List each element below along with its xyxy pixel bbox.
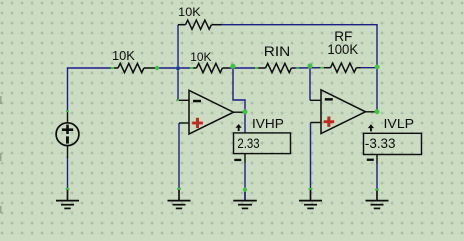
resistor RF 100K [323, 63, 361, 72]
meter IVHP [234, 124, 291, 163]
node dot: rail junction op-amp2 minus [307, 63, 312, 68]
wire: source bottom to ground [67, 157, 69, 188]
svg-text:RIN: RIN [264, 43, 291, 59]
pin: op-amp1 output stub [234, 111, 244, 113]
ground (op-amp2 plus) [299, 189, 322, 209]
svg-text:IVHP: IVHP [252, 116, 284, 131]
pin tick: op-amp1 plus ground [177, 188, 181, 190]
pin tick: op-amp2 plus ground [309, 188, 313, 190]
node dot: RF right / top wire junction [375, 65, 380, 70]
pin tick: R2 left pin [111, 67, 114, 69]
node dot: op-amp2 output [375, 109, 380, 114]
pin: op-amp2 plus stub [311, 122, 322, 124]
wire: from node (310,68) down to op-amp2 minus [309, 68, 311, 101]
pin tick: RF left pin [320, 67, 323, 69]
ground (source) [56, 189, 79, 209]
pin tick: source ground [66, 188, 70, 190]
wire: op-amp2 plus input down to ground [310, 123, 312, 189]
wire: rail between RIN and RF [295, 67, 323, 69]
voltage source V1 [56, 112, 79, 159]
wire: feedback jog from node (233,68) down to op-amp1 output node [233, 68, 245, 112]
junction dot (navy) at rail x=178 [176, 66, 180, 70]
wire: meter IVLP bottom to ground [376, 163, 378, 190]
resistor R2 10K (input) [112, 63, 156, 72]
resistor R1 10K (top feedback) [178, 20, 222, 29]
wire: rail between R3 and RIN [230, 67, 258, 69]
pin: op-amp2 minus stub [310, 99, 321, 101]
left sheet-border dash marks [0, 96, 2, 104]
wire: top feedback horizontal and right vertical down to op-amp2 output [222, 25, 378, 112]
pin tick: meter IVLP ground [375, 189, 379, 191]
wire: op-amp1 output node down to meter IVHP [244, 112, 246, 133]
ground (meter IVHP) [233, 190, 257, 209]
svg-text:2.33: 2.33 [237, 136, 259, 152]
node dot: R2 right pin [155, 66, 159, 70]
pin tick: RIN left pin [255, 67, 258, 69]
ground (op-amp1 plus) [168, 189, 191, 209]
meter IVLP [364, 124, 422, 163]
svg-text:10K: 10K [178, 5, 200, 19]
wire: RF right lead to right vertical [361, 67, 378, 69]
pin tick: R3 left pin [190, 67, 193, 69]
resistor R3 10K (to op-amp1 minus) [192, 63, 230, 72]
pin: op-amp1 plus stub [179, 122, 189, 124]
svg-text:-3.33: -3.33 [365, 136, 396, 152]
pin: op-amp2 output stub [366, 111, 376, 113]
pin tick: source top [66, 111, 69, 113]
wire: input corner from source up to rail [68, 68, 112, 112]
wire: meter IVHP bottom to ground [244, 162, 246, 190]
node dot: rail junction at feedback jog [230, 64, 235, 69]
op-amp U1 [189, 90, 234, 134]
wire: op-amp1 plus input down to ground [178, 123, 180, 188]
wire: rail between R2 and R3 [155, 67, 192, 69]
svg-text:IVLP: IVLP [384, 116, 415, 131]
node dot: op-amp1 output [243, 109, 248, 114]
resistor RIN [258, 63, 296, 72]
pin tick: op-amp1 minus pin [176, 100, 179, 102]
svg-text:10K: 10K [190, 50, 211, 64]
ground (meter IVLP) [366, 190, 389, 209]
svg-text:100K: 100K [327, 42, 359, 57]
pin: op-amp1 minus stub [178, 99, 190, 101]
wire: vertical net x=178 from top feedback down to op-amp1 minus [177, 25, 179, 101]
svg-text:10K: 10K [112, 49, 135, 63]
op-amp U2 [321, 90, 366, 134]
pin tick: RIN right pin [296, 67, 299, 69]
node dot: above ground of meter IVHP [243, 188, 247, 192]
